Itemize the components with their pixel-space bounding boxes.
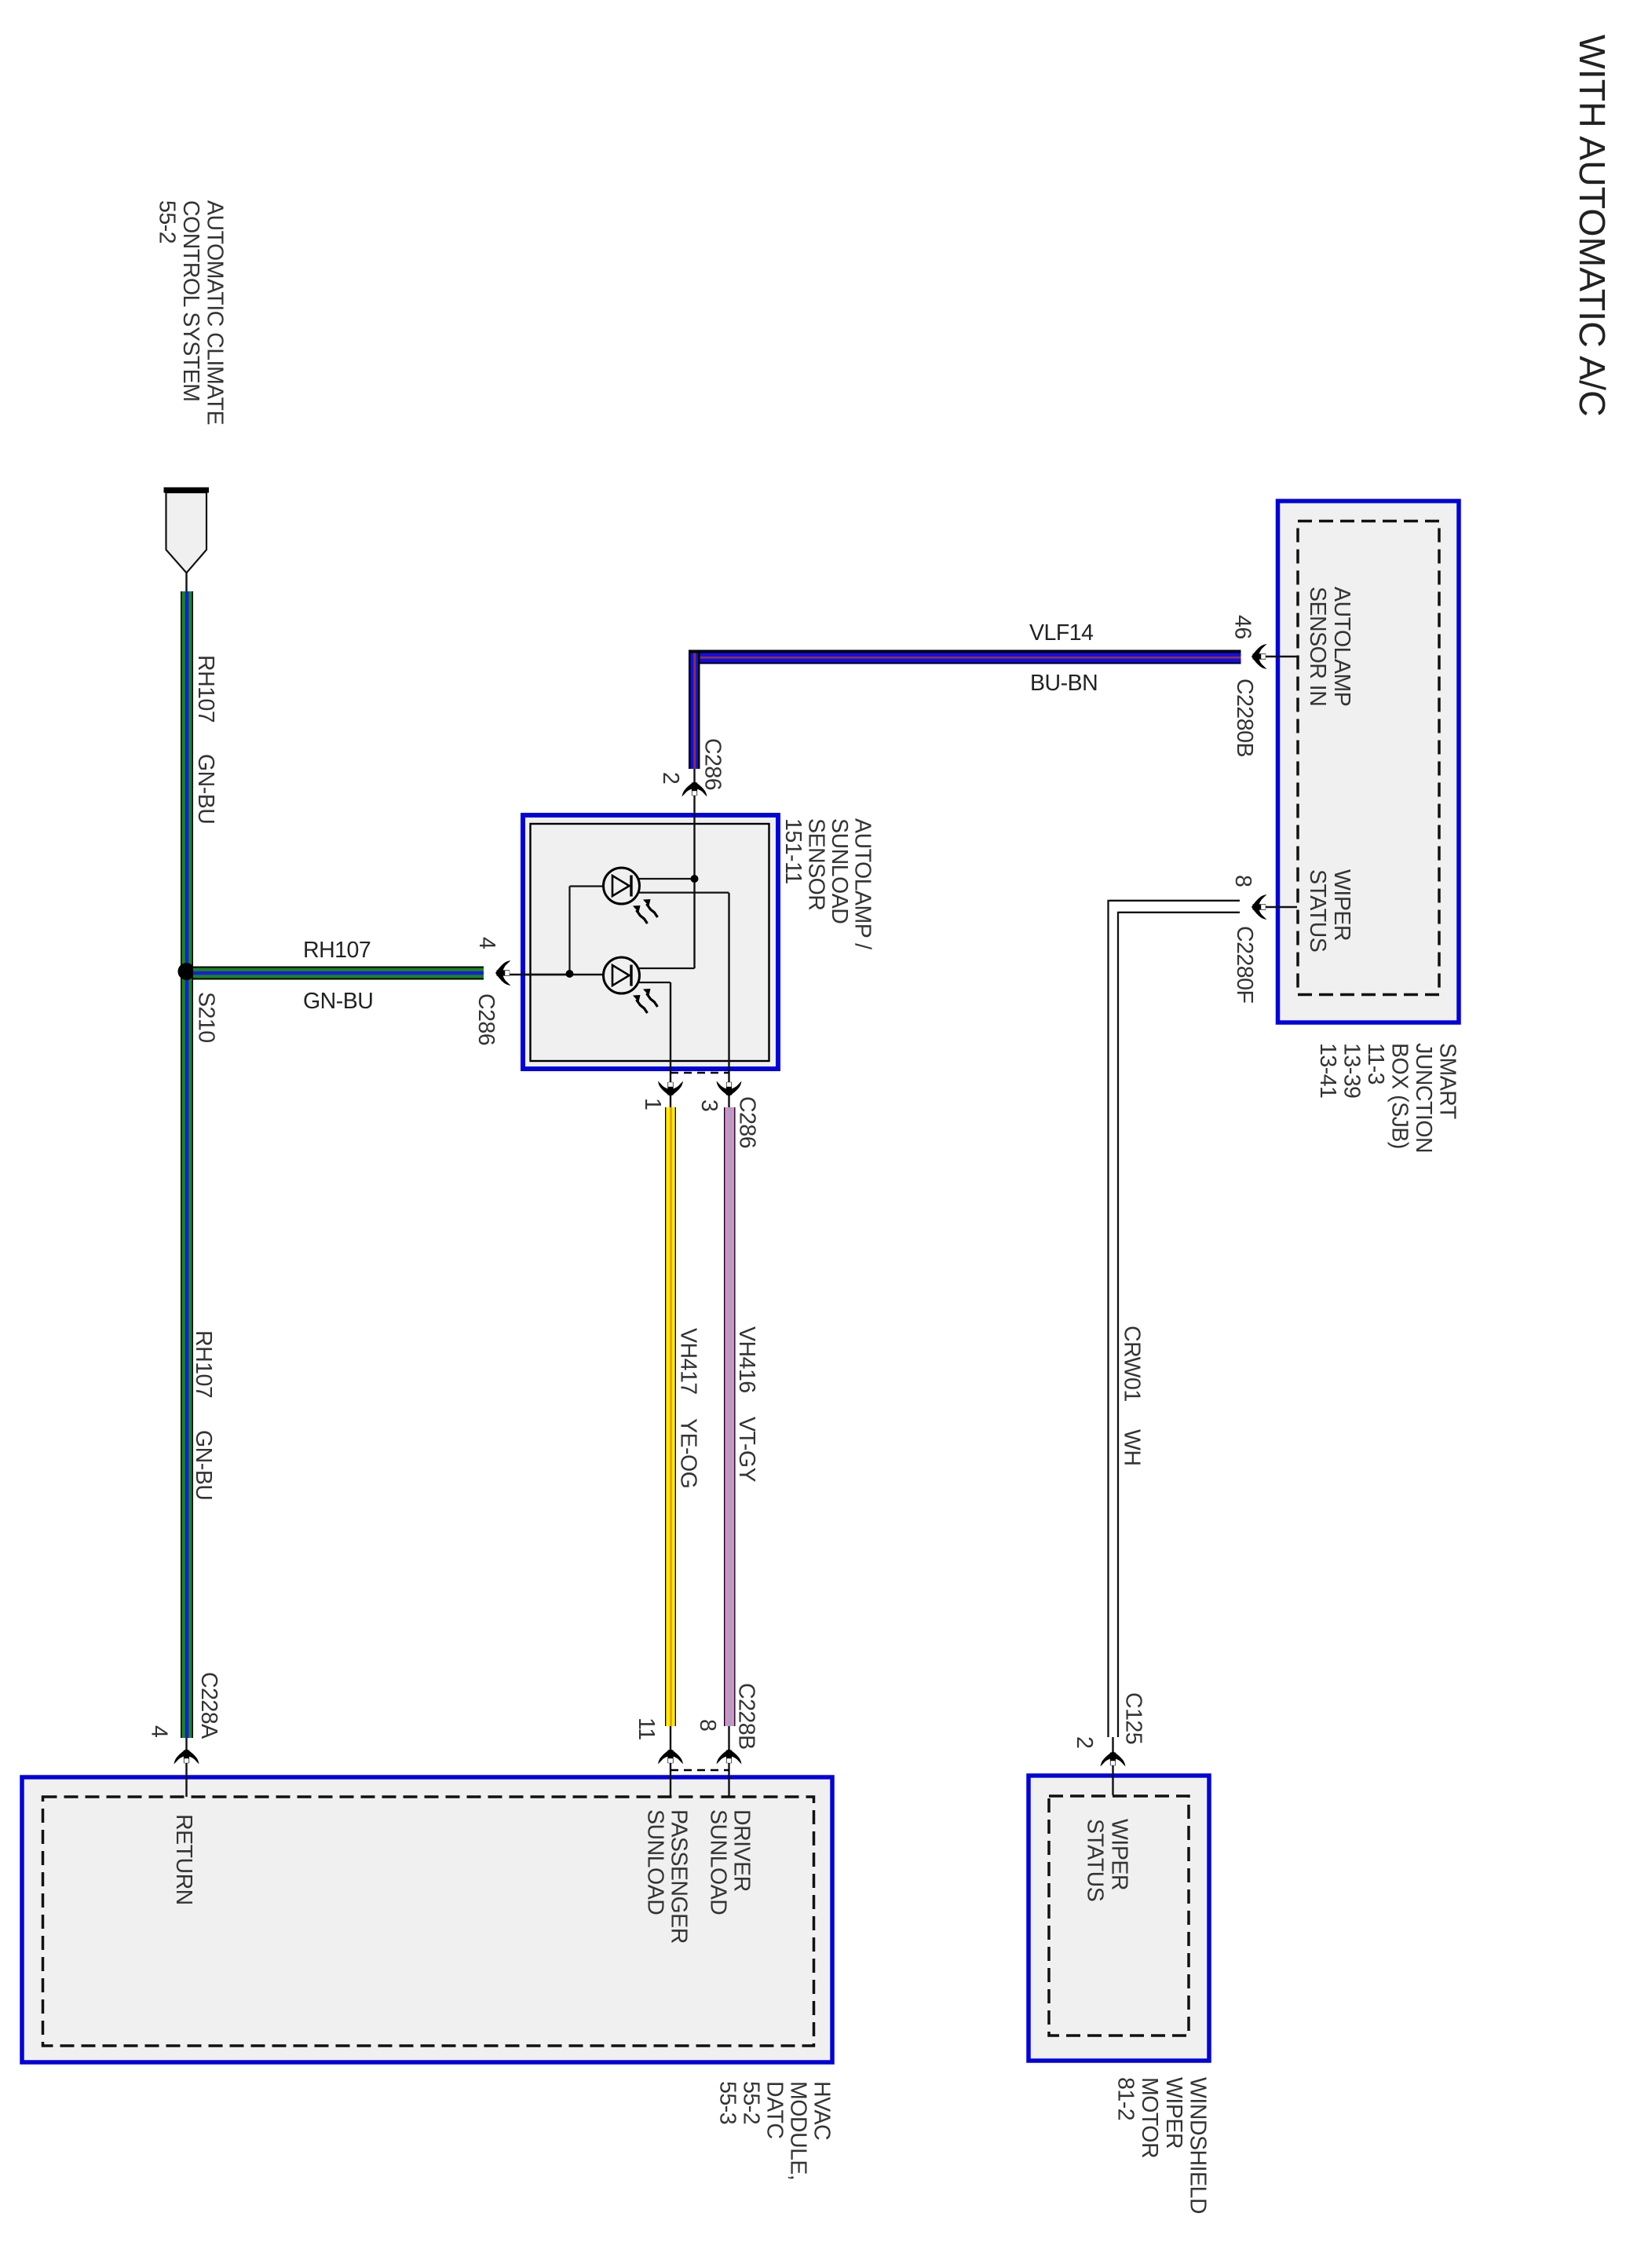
- svg-text:RH107: RH107: [193, 655, 218, 722]
- svg-text:STATUS: STATUS: [1305, 869, 1330, 952]
- svg-text:AUTOMATIC CLIMATE: AUTOMATIC CLIMATE: [203, 200, 228, 425]
- svg-text:C286: C286: [700, 738, 725, 790]
- svg-text:JUNCTION: JUNCTION: [1411, 1043, 1436, 1153]
- svg-text:DRIVER: DRIVER: [729, 1809, 755, 1892]
- svg-text:1: 1: [640, 1098, 665, 1110]
- svg-text:2: 2: [658, 772, 683, 784]
- svg-text:DATC: DATC: [762, 2081, 787, 2138]
- svg-text:55-3: 55-3: [715, 2081, 740, 2124]
- svg-text:WINDSHIELD: WINDSHIELD: [1186, 2077, 1211, 2214]
- svg-text:MOTOR: MOTOR: [1137, 2077, 1162, 2158]
- svg-text:SENSOR IN: SENSOR IN: [1305, 587, 1330, 706]
- svg-text:VLF14: VLF14: [1029, 620, 1094, 646]
- svg-text:4: 4: [474, 937, 499, 949]
- svg-text:11-3: 11-3: [1363, 1043, 1388, 1085]
- svg-text:WIPER: WIPER: [1329, 869, 1354, 941]
- svg-text:C228B: C228B: [734, 1683, 759, 1750]
- svg-text:S210: S210: [194, 992, 219, 1043]
- svg-text:AUTOLAMP: AUTOLAMP: [1329, 587, 1354, 706]
- svg-text:RH107: RH107: [303, 938, 371, 963]
- svg-text:CRW01: CRW01: [1120, 1326, 1145, 1402]
- svg-text:SUNLOAD: SUNLOAD: [706, 1809, 731, 1915]
- svg-text:WIPER: WIPER: [1107, 1819, 1132, 1890]
- svg-text:C2280B: C2280B: [1232, 679, 1257, 757]
- svg-text:C228A: C228A: [196, 1672, 221, 1739]
- svg-text:VH416: VH416: [734, 1326, 759, 1393]
- svg-text:RH107: RH107: [191, 1330, 216, 1398]
- svg-text:PASSENGER: PASSENGER: [667, 1809, 692, 1944]
- svg-text:VT-GY: VT-GY: [734, 1417, 759, 1483]
- svg-text:81-2: 81-2: [1113, 2077, 1138, 2120]
- svg-text:C125: C125: [1121, 1692, 1146, 1744]
- svg-text:2: 2: [1072, 1736, 1097, 1748]
- svg-text:SENSOR: SENSOR: [804, 818, 829, 910]
- svg-text:WITH AUTOMATIC A/C: WITH AUTOMATIC A/C: [1572, 35, 1613, 417]
- svg-text:11: 11: [634, 1717, 659, 1740]
- svg-text:46: 46: [1230, 615, 1255, 639]
- svg-text:8: 8: [1230, 875, 1255, 887]
- svg-text:SUNLOAD: SUNLOAD: [827, 818, 852, 924]
- svg-text:MODULE,: MODULE,: [786, 2081, 811, 2180]
- svg-text:AUTOLAMP /: AUTOLAMP /: [850, 818, 875, 949]
- svg-text:WIPER: WIPER: [1161, 2077, 1186, 2149]
- svg-text:HVAC: HVAC: [809, 2081, 835, 2140]
- svg-text:CONTROL SYSTEM: CONTROL SYSTEM: [178, 200, 203, 401]
- svg-text:SUNLOAD: SUNLOAD: [643, 1809, 668, 1915]
- svg-text:VH417: VH417: [676, 1328, 701, 1395]
- svg-text:C286: C286: [473, 993, 499, 1045]
- svg-text:BU-BN: BU-BN: [1030, 671, 1098, 696]
- svg-text:55-2: 55-2: [739, 2081, 764, 2124]
- svg-text:13-39: 13-39: [1339, 1043, 1365, 1098]
- svg-text:YE-OG: YE-OG: [676, 1418, 701, 1488]
- svg-text:8: 8: [695, 1719, 720, 1731]
- svg-text:WH: WH: [1120, 1429, 1145, 1465]
- svg-text:STATUS: STATUS: [1083, 1819, 1108, 1901]
- svg-text:C2280F: C2280F: [1232, 926, 1257, 1003]
- svg-text:GN-BU: GN-BU: [193, 754, 218, 824]
- svg-text:55-2: 55-2: [155, 200, 180, 243]
- svg-text:3: 3: [696, 1099, 722, 1111]
- svg-text:C286: C286: [735, 1096, 760, 1148]
- svg-text:151-11: 151-11: [780, 818, 806, 884]
- svg-text:13-41: 13-41: [1315, 1043, 1340, 1098]
- svg-text:4: 4: [147, 1725, 172, 1738]
- svg-text:GN-BU: GN-BU: [303, 989, 373, 1014]
- svg-text:GN-BU: GN-BU: [191, 1430, 216, 1500]
- svg-text:SMART: SMART: [1435, 1043, 1460, 1119]
- svg-text:BOX (SJB): BOX (SJB): [1387, 1043, 1412, 1149]
- svg-text:RETURN: RETURN: [171, 1814, 196, 1905]
